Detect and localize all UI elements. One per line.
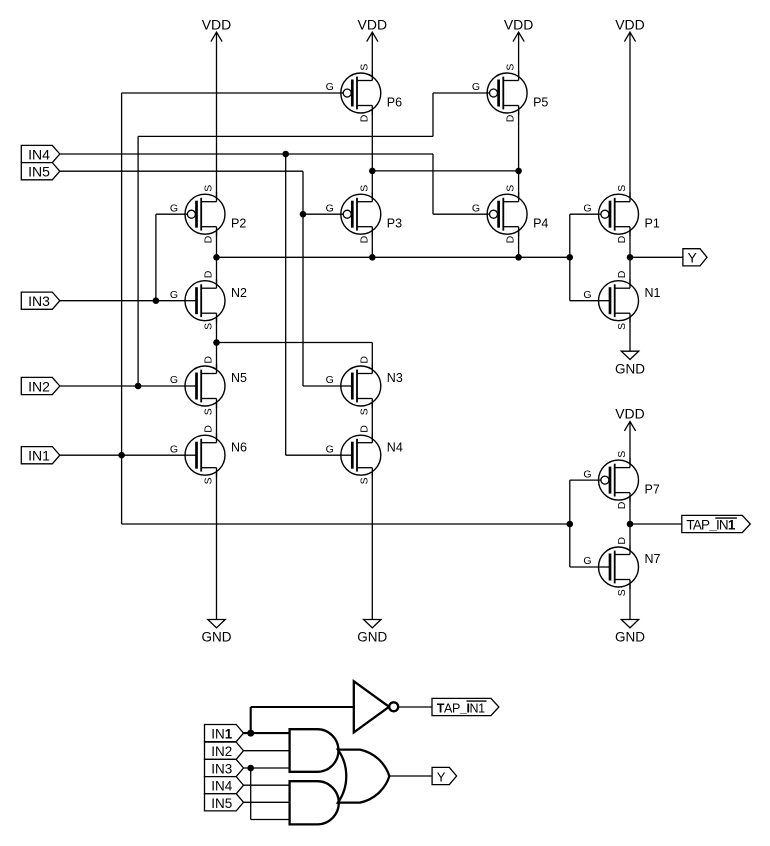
wire P1.D-N1.D bbox=[629, 227, 631, 289]
wire IN1 up to inverter (highlighted) bbox=[250, 707, 252, 733]
wire IN1 to N6.G bbox=[60, 454, 197, 456]
svg-text:N7: N7 bbox=[645, 552, 661, 566]
junction P6.D/P3.S bbox=[369, 168, 376, 175]
wire to P5.G bbox=[433, 92, 490, 94]
svg-text:VDD: VDD bbox=[615, 16, 645, 32]
svg-text:VDD: VDD bbox=[358, 16, 388, 32]
svg-text:G: G bbox=[326, 81, 334, 93]
svg-text:IN4: IN4 bbox=[211, 779, 233, 794]
wire IN5 vertical bbox=[302, 171, 304, 386]
junction P4.D on output row bbox=[515, 254, 522, 261]
wire inverter out bbox=[398, 706, 432, 708]
wire P3.D down bbox=[371, 227, 373, 258]
svg-text:D: D bbox=[203, 425, 215, 433]
svg-text:G: G bbox=[326, 374, 334, 386]
junction IN2 bbox=[135, 383, 142, 390]
svg-text:GND: GND bbox=[615, 361, 645, 376]
wire to N7.G bbox=[570, 566, 610, 568]
svg-text:TAP_IN1: TAP_IN1 bbox=[686, 517, 735, 532]
wire N3.S-N4.D bbox=[371, 399, 373, 443]
wire P6.D down bbox=[371, 106, 373, 171]
NMOS transistor N2 bbox=[170, 270, 247, 330]
wire VDD to P2.S bbox=[216, 32, 218, 202]
wire N2.S-N5.D bbox=[216, 313, 218, 373]
output label Y bbox=[683, 249, 707, 266]
input label IN2 bbox=[205, 742, 244, 759]
power VDD bbox=[615, 16, 645, 41]
wire to N3.G bbox=[303, 385, 352, 387]
svg-text:GND: GND bbox=[615, 630, 645, 645]
junction P2.D/N2.D on output row bbox=[213, 254, 220, 261]
junction P1.D/N1.D/Y bbox=[627, 254, 634, 261]
svg-text:S: S bbox=[358, 64, 370, 71]
svg-text:IN3: IN3 bbox=[211, 762, 232, 777]
input label IN3 bbox=[205, 759, 244, 776]
wire to P1.G bbox=[570, 213, 599, 215]
wire IN3 down bbox=[250, 768, 252, 820]
wire VDD to P1.S bbox=[629, 32, 631, 202]
wire to P2.G bbox=[156, 213, 188, 215]
input label IN4 bbox=[205, 777, 244, 794]
svg-text:P7: P7 bbox=[645, 482, 660, 496]
svg-text:Y: Y bbox=[688, 250, 698, 266]
svg-text:G: G bbox=[583, 468, 591, 480]
wire to P3.S bbox=[371, 171, 373, 202]
PMOS transistor P5 bbox=[472, 64, 549, 123]
svg-text:D: D bbox=[616, 270, 628, 278]
svg-text:D: D bbox=[358, 114, 370, 122]
svg-text:GND: GND bbox=[357, 630, 387, 645]
svg-text:N2: N2 bbox=[231, 286, 247, 300]
PMOS transistor P6 bbox=[326, 64, 403, 123]
svg-text:G: G bbox=[170, 289, 178, 301]
svg-text:S: S bbox=[358, 185, 370, 192]
wire VDD to P6.S bbox=[371, 32, 373, 80]
svg-text:S: S bbox=[616, 323, 628, 330]
input label IN5 bbox=[205, 794, 244, 811]
wire IN1 to TAP row bbox=[122, 523, 570, 525]
wire VDD to P7.S bbox=[629, 422, 631, 468]
input label IN5 bbox=[21, 163, 60, 180]
svg-text:D: D bbox=[203, 235, 215, 243]
svg-text:D: D bbox=[505, 235, 517, 243]
NMOS transistor N1 bbox=[583, 270, 660, 330]
AND gate (lower) bbox=[290, 781, 339, 824]
junction IN3 bbox=[247, 765, 254, 772]
NMOS transistor N3 bbox=[326, 356, 403, 416]
wire N6.S to GND bbox=[216, 468, 218, 620]
input label IN3 bbox=[21, 292, 60, 309]
wire VDD to P5.S bbox=[518, 32, 520, 80]
svg-text:S: S bbox=[203, 408, 215, 415]
wire P7.G-N7.G bbox=[569, 480, 571, 567]
svg-text:S: S bbox=[616, 589, 628, 596]
input label IN1 bbox=[21, 447, 60, 464]
wire IN4 bbox=[60, 153, 433, 155]
svg-text:G: G bbox=[326, 202, 334, 214]
NMOS transistor N6 bbox=[170, 425, 247, 485]
svg-text:G: G bbox=[326, 443, 334, 455]
wire to P7.G bbox=[570, 479, 601, 481]
inverter (NOT gate) bbox=[354, 681, 398, 732]
svg-text:D: D bbox=[358, 425, 370, 433]
wire P1.G-N1.G bbox=[569, 214, 571, 301]
svg-text:N5: N5 bbox=[231, 371, 247, 385]
svg-text:D: D bbox=[616, 235, 628, 243]
svg-text:S: S bbox=[358, 408, 370, 415]
PMOS transistor P7 bbox=[583, 451, 660, 510]
svg-text:N3: N3 bbox=[387, 371, 403, 385]
wire IN3 to P2.G vertical bbox=[155, 214, 157, 301]
input label IN1 bbox=[205, 725, 244, 742]
wire IN4 to AND2 bbox=[244, 784, 290, 786]
wire IN2 to P5.G row bbox=[138, 135, 433, 137]
svg-text:S: S bbox=[203, 477, 215, 484]
wire IN4 to N4.G vertical bbox=[285, 154, 287, 455]
svg-text:G: G bbox=[170, 374, 178, 386]
svg-text:D: D bbox=[616, 501, 628, 509]
PMOS transistor P2 bbox=[170, 185, 247, 244]
PMOS transistor P1 bbox=[583, 185, 660, 244]
svg-text:IN2: IN2 bbox=[28, 379, 50, 395]
wire IN3 to AND1 bbox=[244, 767, 290, 769]
output label TAP_IN1 bbox=[432, 698, 499, 715]
wire to P3.G bbox=[303, 213, 343, 215]
junction IN3 bbox=[153, 297, 160, 304]
output label Y bbox=[432, 767, 457, 784]
input label IN2 bbox=[21, 377, 60, 394]
junction P5.D/P4.S bbox=[515, 168, 522, 175]
output label TAP_IN1 bbox=[682, 515, 751, 532]
svg-text:VDD: VDD bbox=[202, 16, 232, 32]
svg-text:IN5: IN5 bbox=[211, 796, 232, 811]
wire to P4.G bbox=[433, 213, 490, 215]
wire IN5 bbox=[60, 170, 303, 172]
AND gate (upper) bbox=[290, 729, 339, 772]
wire IN2 to AND1 bbox=[244, 750, 290, 752]
svg-text:P1: P1 bbox=[645, 217, 660, 231]
svg-text:P5: P5 bbox=[533, 95, 548, 109]
svg-text:G: G bbox=[170, 443, 178, 455]
wire IN2 vertical bbox=[137, 136, 139, 386]
wire P2.D-N2.D bbox=[216, 227, 218, 289]
wire to N4.G bbox=[286, 454, 353, 456]
wire to N1.G bbox=[570, 300, 610, 302]
svg-text:G: G bbox=[583, 555, 591, 567]
wire OR out to Y bbox=[388, 775, 432, 777]
svg-text:VDD: VDD bbox=[615, 406, 645, 422]
junction inverter gates on output row bbox=[567, 254, 574, 261]
svg-text:TAP_IN1: TAP_IN1 bbox=[437, 701, 485, 715]
svg-text:D: D bbox=[203, 270, 215, 278]
wire N5.S-N6.D bbox=[216, 399, 218, 443]
wire to P6.G bbox=[122, 92, 344, 94]
wire N7.S to GND bbox=[629, 580, 631, 620]
svg-text:D: D bbox=[616, 537, 628, 545]
svg-text:P4: P4 bbox=[533, 217, 548, 231]
ground GND bbox=[615, 351, 645, 376]
svg-text:N1: N1 bbox=[645, 286, 661, 300]
power VDD bbox=[504, 16, 534, 41]
svg-text:IN2: IN2 bbox=[211, 744, 232, 759]
wire N4.S to GND bbox=[371, 468, 373, 620]
svg-text:P6: P6 bbox=[387, 95, 402, 109]
wire to Y label bbox=[630, 256, 683, 258]
junction P7.D/N7.D/TAP_IN1 bbox=[627, 521, 634, 528]
power VDD bbox=[615, 406, 645, 431]
input label IN4 bbox=[21, 145, 60, 162]
wire P6.D-P5.D join bbox=[372, 170, 518, 172]
wire IN4 to P4.G vertical bbox=[432, 154, 434, 214]
power VDD bbox=[358, 16, 388, 41]
junction P7.G/N7.G bbox=[567, 521, 574, 528]
svg-text:IN4: IN4 bbox=[28, 147, 50, 163]
wire P5.D down bbox=[518, 106, 520, 171]
svg-text:VDD: VDD bbox=[504, 16, 534, 32]
wire IN1 vertical bbox=[121, 93, 123, 524]
svg-text:S: S bbox=[616, 451, 628, 458]
junction IN4 bbox=[282, 151, 289, 158]
svg-text:S: S bbox=[203, 185, 215, 192]
svg-text:G: G bbox=[583, 289, 591, 301]
svg-text:IN1: IN1 bbox=[28, 448, 50, 464]
wire to inverter input (highlighted) bbox=[251, 706, 354, 708]
svg-text:N4: N4 bbox=[387, 440, 403, 454]
NMOS transistor N7 bbox=[583, 537, 660, 597]
ground GND bbox=[615, 620, 645, 645]
svg-text:G: G bbox=[583, 202, 591, 214]
svg-text:S: S bbox=[203, 323, 215, 330]
PMOS transistor P3 bbox=[326, 185, 403, 244]
svg-text:S: S bbox=[616, 185, 628, 192]
svg-text:GND: GND bbox=[202, 630, 232, 645]
wire IN3 to N2.G bbox=[60, 300, 197, 302]
wire P4.D down bbox=[518, 227, 520, 258]
wire output node row bbox=[217, 256, 570, 258]
ground GND bbox=[357, 620, 387, 645]
svg-text:P2: P2 bbox=[231, 217, 246, 231]
svg-text:S: S bbox=[505, 64, 517, 71]
wire N3.D down bbox=[371, 343, 373, 374]
svg-text:N6: N6 bbox=[231, 440, 247, 454]
svg-text:P3: P3 bbox=[387, 217, 402, 231]
wire IN2 to N5.G bbox=[60, 385, 197, 387]
svg-text:D: D bbox=[505, 114, 517, 122]
svg-text:D: D bbox=[358, 235, 370, 243]
junction P3.D on output row bbox=[369, 254, 376, 261]
svg-text:Y: Y bbox=[437, 769, 446, 784]
PMOS transistor P4 bbox=[472, 185, 549, 244]
junction N2.S/N5.D node bbox=[213, 339, 220, 346]
svg-text:S: S bbox=[505, 185, 517, 192]
wire to P4.S bbox=[518, 171, 520, 202]
svg-text:D: D bbox=[358, 356, 370, 364]
svg-text:IN1: IN1 bbox=[211, 727, 233, 742]
svg-text:G: G bbox=[170, 202, 178, 214]
wire up to P5.G bbox=[432, 93, 434, 136]
wire N1.S to GND bbox=[629, 313, 631, 351]
OR gate bbox=[338, 750, 390, 803]
wire IN1 to AND1 (highlighted) bbox=[244, 732, 290, 734]
wire P7.D-N7.D bbox=[629, 493, 631, 555]
svg-text:G: G bbox=[472, 202, 480, 214]
svg-text:S: S bbox=[358, 477, 370, 484]
svg-text:G: G bbox=[472, 81, 480, 93]
NMOS transistor N4 bbox=[326, 425, 403, 485]
wire node row to N3.D bbox=[217, 342, 373, 344]
wire to TAP_IN1 label bbox=[630, 523, 682, 525]
svg-text:IN5: IN5 bbox=[28, 164, 50, 180]
svg-text:IN3: IN3 bbox=[28, 293, 50, 309]
junction IN1 bbox=[247, 730, 254, 737]
wire IN5 to AND2 bbox=[244, 801, 290, 803]
svg-text:D: D bbox=[203, 356, 215, 364]
junction IN1 bbox=[118, 452, 125, 459]
junction IN5/P3.G bbox=[300, 211, 307, 218]
wire IN3 to AND2 bbox=[251, 819, 290, 821]
NMOS transistor N5 bbox=[170, 356, 247, 416]
power VDD bbox=[202, 16, 232, 41]
ground GND bbox=[202, 620, 232, 645]
